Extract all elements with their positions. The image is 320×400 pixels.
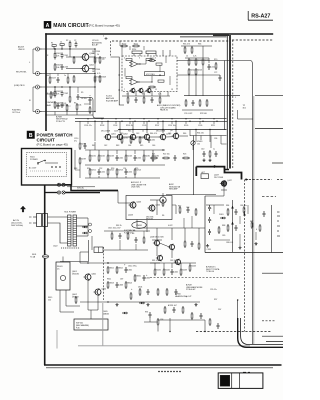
thick curve right 1 xyxy=(238,318,283,347)
wire jack3 xyxy=(42,86,96,88)
resistor R246 xyxy=(152,154,159,162)
ground G10 xyxy=(254,242,257,245)
wire out right 2 xyxy=(255,128,283,130)
IC inner rect 2 xyxy=(146,59,152,61)
capacitor C223 xyxy=(192,100,195,106)
svg-text:Q601: Q601 xyxy=(91,273,96,275)
resistor R217 xyxy=(143,96,145,104)
svg-text:R84: R84 xyxy=(226,205,229,207)
svg-text:C612 470u: C612 470u xyxy=(128,266,137,268)
svg-text:C52: C52 xyxy=(99,168,102,170)
wire stub tl xyxy=(53,46,55,49)
ground G7 xyxy=(194,303,197,306)
label AC IN xyxy=(11,219,23,227)
junction dot 1 xyxy=(54,48,55,49)
relay box low xyxy=(56,262,70,290)
right exit stub 273 xyxy=(262,272,283,274)
resistor R231 xyxy=(121,136,128,144)
resistor R261 xyxy=(162,199,164,207)
AC connector body xyxy=(37,214,42,227)
connector pin CN601-2 xyxy=(62,183,65,186)
IC inner wires xyxy=(140,63,146,65)
svg-text:SW 601: SW 601 xyxy=(76,323,84,325)
svg-text:R88: R88 xyxy=(222,225,225,227)
power switch box xyxy=(22,149,72,186)
svg-text:R245: R245 xyxy=(145,156,150,158)
wire q out xyxy=(88,56,95,58)
arrow on dashed xyxy=(246,179,248,181)
wire out right 3 xyxy=(272,162,283,164)
resistor R465 xyxy=(209,318,211,326)
bus top corner thin xyxy=(180,36,227,38)
svg-text:P.46: P.46 xyxy=(76,328,79,330)
resistor R601 xyxy=(107,266,114,274)
svg-text:(LINE) PB IN: (LINE) PB IN xyxy=(14,85,25,87)
wire mid h1 xyxy=(117,191,119,204)
wire q102 in xyxy=(66,68,82,70)
IC top pin resistor R214 xyxy=(132,51,142,54)
mech arrow 2 xyxy=(232,222,234,224)
resistor R224 xyxy=(195,68,202,76)
svg-text:1u: 1u xyxy=(64,75,66,77)
svg-text:R81 4.7k: R81 4.7k xyxy=(152,260,159,262)
svg-text:R222: R222 xyxy=(190,70,195,72)
svg-text:R43: R43 xyxy=(116,145,119,147)
label Q447 xyxy=(214,175,224,179)
svg-text:C43: C43 xyxy=(136,133,139,135)
svg-text:11: 11 xyxy=(155,89,157,91)
arrow up on dashed v xyxy=(244,213,246,215)
svg-text:Q201: Q201 xyxy=(111,134,116,136)
capacitor C402 xyxy=(203,151,206,157)
svg-text:1k: 1k xyxy=(97,54,99,56)
svg-text:10k: 10k xyxy=(197,143,200,145)
arrow on thick path xyxy=(214,165,217,168)
svg-text:C2: C2 xyxy=(74,40,76,42)
label A201 note xyxy=(157,104,181,112)
svg-text:C615 100u 16V: C615 100u 16V xyxy=(108,228,121,230)
transformer T601 right winding xyxy=(73,215,77,246)
rounded wire to ic label xyxy=(80,98,104,119)
tl bottom wire xyxy=(46,114,93,116)
resistor R102 xyxy=(54,90,61,98)
center stubs3 xyxy=(89,176,91,178)
resistor R226 xyxy=(215,62,217,70)
mid cluster rail 2 xyxy=(85,164,165,166)
transistor Q101 xyxy=(81,53,94,61)
svg-text:AC?: AC? xyxy=(202,171,206,174)
capacitor C621 xyxy=(119,233,122,239)
svg-text:R6: R6 xyxy=(162,215,164,217)
svg-text:C209: C209 xyxy=(198,125,202,127)
header rule xyxy=(248,19,273,21)
label Q601 part xyxy=(72,271,79,275)
mech area top wire xyxy=(166,194,216,196)
tl wires3 xyxy=(89,95,91,96)
mech arrow 1 xyxy=(232,206,234,208)
transistor Q102 xyxy=(81,64,94,72)
wire tr bottom L xyxy=(60,240,89,262)
transistor Q447 xyxy=(220,180,232,187)
dashed mid bottom xyxy=(150,277,240,279)
svg-text:A?651 4-P: A?651 4-P xyxy=(168,304,178,307)
resistor R623 xyxy=(143,236,145,244)
svg-text:2SC1740S: 2SC1740S xyxy=(214,177,224,179)
dashed vertical mid-left xyxy=(103,247,105,300)
label A205 xyxy=(175,293,192,298)
svg-text:C207 10u: C207 10u xyxy=(168,125,176,127)
meter box top xyxy=(225,61,253,345)
resistor R461 xyxy=(164,306,166,314)
wire mid v1 xyxy=(156,200,158,215)
thick feed into box xyxy=(100,190,118,192)
resistor R212 xyxy=(148,58,156,61)
frame left rule xyxy=(45,33,47,131)
wire trans down xyxy=(91,236,93,250)
svg-text:R111: R111 xyxy=(134,43,138,45)
tl wires2 xyxy=(49,74,51,77)
svg-text:C1: C1 xyxy=(60,41,62,43)
svg-text:13: 13 xyxy=(171,89,173,91)
capacitor C103 xyxy=(61,64,69,70)
svg-text:D301: D301 xyxy=(219,214,224,216)
svg-text:240V 50/60Hz): 240V 50/60Hz) xyxy=(11,225,23,227)
svg-text:M: M xyxy=(162,198,164,202)
label S601 xyxy=(30,157,38,161)
svg-text:R65 4.7k: R65 4.7k xyxy=(183,44,190,46)
IC top pin resistor R215 xyxy=(146,51,156,54)
resistor R402 xyxy=(209,150,211,158)
diode D601 xyxy=(82,226,88,228)
resistor R108 xyxy=(99,75,106,83)
cb rail2 xyxy=(152,239,162,241)
section label A box xyxy=(44,21,51,28)
wire mm xyxy=(175,205,177,214)
svg-text:5: 5 xyxy=(103,36,104,38)
wire lower stub xyxy=(156,228,158,240)
dashed control right end xyxy=(277,179,283,181)
svg-text:C441: C441 xyxy=(174,272,179,274)
resistor R128 xyxy=(67,76,69,84)
wire ps rail xyxy=(80,262,150,264)
svg-text:Q443: Q443 xyxy=(136,201,141,203)
resistor R235 xyxy=(139,136,146,144)
resistor R122 xyxy=(66,104,70,112)
transformer dots xyxy=(60,247,63,250)
svg-text:R601: R601 xyxy=(109,268,114,270)
svg-text:4.7k: 4.7k xyxy=(158,94,161,96)
IC inner dots xyxy=(139,63,142,66)
op-amp U1a xyxy=(129,61,140,67)
resistor R603 xyxy=(107,281,114,289)
svg-text:(TUB 709): (TUB 709) xyxy=(131,187,140,189)
upper mid stubs xyxy=(121,46,123,56)
label main cassette xyxy=(131,181,147,189)
vr stubs xyxy=(200,136,202,141)
resistor R111 xyxy=(132,43,140,46)
capacitor C121 xyxy=(57,103,65,109)
capacitor C264 xyxy=(187,207,190,213)
transistor Q205b xyxy=(129,134,136,141)
transistor Q203 xyxy=(130,88,136,94)
wire bottom v2 xyxy=(204,320,206,332)
svg-text:10k: 10k xyxy=(126,94,129,96)
capacitor C603 xyxy=(116,282,124,288)
svg-text:C93: C93 xyxy=(160,319,163,321)
svg-text:2.2k: 2.2k xyxy=(193,56,196,58)
svg-text:2: 2 xyxy=(124,58,125,60)
connector block CP601 xyxy=(94,247,103,253)
wire rail1 stubs down xyxy=(107,121,109,133)
svg-text:C86 10u: C86 10u xyxy=(240,205,247,207)
resistor R621 xyxy=(111,232,113,240)
svg-text:R214: R214 xyxy=(132,49,136,51)
svg-text:A: A xyxy=(46,23,50,29)
resistor R218 xyxy=(159,96,161,104)
gray wire stub xyxy=(56,330,58,349)
wire box down xyxy=(136,220,138,229)
resistor R303 xyxy=(243,206,245,214)
svg-text:Q202: Q202 xyxy=(123,134,128,136)
resistor R451 xyxy=(157,288,159,296)
right exit wires xyxy=(262,336,283,341)
connector pin CN601-1 xyxy=(57,183,60,186)
resistor R252 xyxy=(107,168,114,176)
transistor Q211 xyxy=(159,134,171,141)
svg-text:C231: C231 xyxy=(151,140,156,142)
frame top rule xyxy=(45,33,273,35)
transistor Q205 xyxy=(146,88,152,94)
svg-text:R108: R108 xyxy=(101,77,106,79)
svg-text:C68: C68 xyxy=(186,207,189,209)
wire bottom v3 xyxy=(237,300,239,318)
svg-text:3: 3 xyxy=(139,58,140,60)
label left rail xyxy=(56,115,69,123)
wire tr sec 3 xyxy=(77,235,89,237)
svg-text:4: 4 xyxy=(256,229,257,231)
IC201 dashed outline xyxy=(122,56,177,92)
bottom frame rule xyxy=(44,364,282,366)
wire q201 base xyxy=(94,121,96,142)
svg-text:Q447: Q447 xyxy=(227,180,232,182)
ground G9 xyxy=(238,246,241,249)
svg-text:1u: 1u xyxy=(68,106,70,108)
wire mid right xyxy=(213,95,240,97)
trimmer VR401 xyxy=(191,141,203,150)
svg-text:R44 4.7k: R44 4.7k xyxy=(150,133,157,135)
switch wire 1 xyxy=(50,162,58,164)
resistor R443 xyxy=(180,268,187,276)
svg-text:R66: R66 xyxy=(198,44,201,46)
wire jack1 xyxy=(42,48,96,50)
resistor R622 xyxy=(127,232,129,240)
capacitor C222 xyxy=(219,75,222,81)
band stubs xyxy=(87,121,89,124)
svg-text:S/S??MECHA: S/S??MECHA xyxy=(124,229,136,232)
svg-text:R603: R603 xyxy=(109,283,114,285)
svg-text:5: 5 xyxy=(155,58,156,60)
capacitor C306 xyxy=(235,225,238,231)
svg-text:10k: 10k xyxy=(78,105,81,107)
ground G8 xyxy=(146,303,149,306)
T601 small label xyxy=(243,105,247,109)
dashed control right xyxy=(245,179,272,181)
thick stub down xyxy=(195,167,197,176)
svg-text:R239: R239 xyxy=(81,159,86,161)
svg-text:R42: R42 xyxy=(120,133,123,135)
svg-text:9: 9 xyxy=(139,89,140,91)
svg-text:1k: 1k xyxy=(142,131,144,133)
resistor R333 xyxy=(182,157,190,159)
dashed vertical lower xyxy=(244,180,246,332)
svg-text:C95 47u: C95 47u xyxy=(210,289,217,291)
dashed drop xyxy=(110,41,112,56)
bus top dashed to edge xyxy=(232,39,273,41)
resistor R125 xyxy=(73,75,75,83)
diode D301 xyxy=(220,217,226,219)
svg-text:C9: C9 xyxy=(102,59,104,61)
svg-text:R602: R602 xyxy=(118,268,123,270)
svg-text:0.022: 0.022 xyxy=(168,225,173,227)
transistor Q201 xyxy=(104,134,116,141)
svg-text:CN601: CN601 xyxy=(136,225,142,227)
meter box left xyxy=(224,61,226,131)
resistor R264 xyxy=(179,206,181,214)
capacitor C303 xyxy=(208,229,211,235)
capacitor C464 xyxy=(217,323,220,329)
svg-text:47u: 47u xyxy=(74,140,77,142)
footer microtext xyxy=(158,371,182,373)
resistor R221 xyxy=(188,58,195,66)
svg-text:C54: C54 xyxy=(123,168,126,170)
right margin ticks xyxy=(277,212,280,236)
resistor R602 xyxy=(116,266,123,274)
transistor Q602 xyxy=(94,288,107,296)
wire below ic rail xyxy=(122,95,170,97)
resistor R607 xyxy=(130,292,132,300)
transistor Q449 xyxy=(168,244,175,251)
transistor Q212 xyxy=(172,133,179,140)
resistor R105 xyxy=(94,56,101,64)
cb stubs xyxy=(154,263,156,268)
svg-text:R203: R203 xyxy=(100,125,104,127)
capacitor C462 xyxy=(200,313,203,319)
svg-text:C221: C221 xyxy=(211,67,216,69)
svg-text:R46: R46 xyxy=(183,133,186,135)
resistor R304 xyxy=(227,224,229,232)
transistor Q446 xyxy=(174,259,181,266)
connector pin CN602-1 xyxy=(57,191,60,194)
wire relay top xyxy=(62,257,64,263)
mech inner wires xyxy=(213,205,215,214)
capacitor C101 xyxy=(61,53,69,59)
svg-text:T.P.BLUE: T.P.BLUE xyxy=(206,271,215,273)
transistor Q444 xyxy=(148,204,161,212)
label A206 xyxy=(168,304,178,307)
jack J103 LINE IN R xyxy=(36,85,42,89)
resistor R606 xyxy=(139,288,141,296)
resistor R220 xyxy=(191,46,193,54)
svg-text:C121: C121 xyxy=(60,106,65,108)
wire in q443 xyxy=(118,202,130,204)
svg-text:R70: R70 xyxy=(214,59,217,61)
mid cluster rail xyxy=(85,149,165,151)
connector pin CN602-2 xyxy=(62,191,65,194)
capacitor C305 xyxy=(235,209,238,215)
svg-text:AC IN: AC IN xyxy=(13,219,19,222)
xtra v stub xyxy=(119,240,121,250)
svg-text:C88 0.01: C88 0.01 xyxy=(226,242,233,244)
capacitor C238 xyxy=(84,143,87,149)
resistor R605 xyxy=(134,274,141,282)
svg-text:7: 7 xyxy=(124,89,125,91)
capacitor C221 xyxy=(208,64,216,70)
svg-text:1k: 1k xyxy=(52,95,54,97)
resistor R222 xyxy=(188,68,195,76)
resistor R444 xyxy=(189,264,196,272)
svg-text:POWER SWITCH: POWER SWITCH xyxy=(37,132,73,137)
capacitor C102 xyxy=(61,91,69,97)
svg-text:R55: R55 xyxy=(135,168,138,170)
capacitor C441 xyxy=(171,269,179,275)
footer divider 2 xyxy=(238,373,240,389)
gray wire vertical xyxy=(102,303,104,345)
bus line thick xyxy=(229,35,231,169)
svg-text:C605: C605 xyxy=(146,278,151,280)
svg-text:C203: C203 xyxy=(113,125,117,127)
switch terminals xyxy=(51,166,60,167)
switch contact row xyxy=(30,170,62,172)
footer box xyxy=(218,373,263,389)
svg-text:C36: C36 xyxy=(214,138,217,140)
svg-text:OUT R-ch: OUT R-ch xyxy=(12,112,20,114)
resistor R452 xyxy=(166,288,168,296)
svg-text:R211: R211 xyxy=(211,125,215,127)
svg-text:R1: R1 xyxy=(51,42,53,44)
capacitor C127 xyxy=(57,77,60,83)
svg-text:560: 560 xyxy=(46,75,49,77)
gray vertical wire right xyxy=(253,96,255,344)
q447 leads xyxy=(221,187,227,197)
svg-text:R51: R51 xyxy=(87,168,90,170)
resistor R124 xyxy=(73,56,75,64)
capacitor C331 xyxy=(174,155,177,161)
svg-text:C102: C102 xyxy=(64,93,69,95)
power feed wire xyxy=(44,185,46,365)
page-number rule xyxy=(247,11,249,20)
transistor Q202 xyxy=(116,134,128,141)
svg-text:C89: C89 xyxy=(222,235,225,237)
capacitor C217 xyxy=(151,97,154,103)
resistor R244 xyxy=(125,154,132,162)
resistor R472 xyxy=(198,242,200,250)
capacitor C126 xyxy=(75,42,78,48)
svg-text:220: 220 xyxy=(48,299,51,301)
IC inner rect 3 xyxy=(156,63,162,65)
svg-text:C209: C209 xyxy=(114,131,118,133)
resistor R127 xyxy=(49,76,56,84)
junction dots rail1 xyxy=(94,121,95,122)
svg-text:47u: 47u xyxy=(142,94,145,96)
main rail 2 xyxy=(118,129,227,131)
wire ic out2 xyxy=(177,74,220,76)
svg-text:R34 220: R34 220 xyxy=(197,133,204,135)
resistor R305 xyxy=(251,221,253,229)
svg-text:R97: R97 xyxy=(214,299,217,301)
diode circles xyxy=(89,223,92,226)
junction dots rail2 xyxy=(119,129,120,130)
jack J101 LINE IN L xyxy=(36,47,42,51)
